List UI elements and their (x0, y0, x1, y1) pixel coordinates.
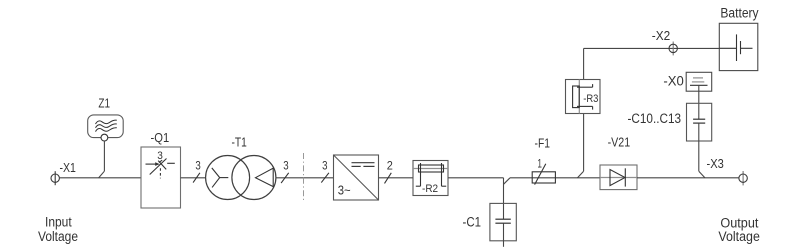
converter U1 AC/DC (334, 155, 379, 200)
wire X0 to C10 (698, 85, 700, 119)
capacitor C1 (490, 203, 516, 246)
svg-text:3: 3 (322, 161, 327, 173)
separator dash-dot line (303, 153, 305, 202)
wire converter to R2 (379, 177, 414, 179)
svg-text:3~: 3~ (338, 183, 351, 198)
svg-text:3: 3 (283, 161, 288, 173)
svg-text:-X1: -X1 (60, 160, 76, 175)
fuse F1 (532, 158, 555, 184)
svg-text:Input: Input (45, 214, 72, 229)
wire X1 to Q1 (59, 177, 141, 179)
phase slash 3 (281, 161, 289, 183)
node C1 junction (504, 178, 511, 185)
resistor R2 (413, 161, 448, 196)
svg-text:-C1: -C1 (463, 214, 482, 229)
svg-text:-R2: -R2 (422, 183, 438, 195)
resistor R3 (566, 80, 601, 114)
transformer T1 (206, 156, 276, 200)
svg-text:3: 3 (195, 161, 200, 173)
terminal output (739, 171, 747, 185)
svg-text:-X2: -X2 (652, 28, 670, 43)
filter Z1 (88, 115, 124, 141)
svg-text:-C10..C13: -C10..C13 (628, 111, 682, 126)
phase slash 3 (193, 161, 201, 183)
svg-text:-F1: -F1 (535, 135, 551, 150)
wire V21 to output (637, 177, 739, 179)
svg-text:-X0: -X0 (663, 74, 683, 89)
wire T1 to converter (276, 177, 334, 179)
wire Q1 to T1 (181, 177, 206, 179)
circuit breaker Q1 (141, 147, 181, 208)
wire R3 bottom to node (583, 114, 585, 172)
svg-text:1: 1 (537, 158, 542, 170)
svg-text:Battery: Battery (720, 5, 758, 20)
battery G1 (719, 23, 758, 70)
node X3 junction (699, 171, 705, 178)
svg-text:-V21: -V21 (608, 135, 631, 150)
wire C1 node to V21 (510, 177, 600, 179)
phase slash 2 (385, 161, 393, 184)
svg-text:-R3: -R3 (583, 93, 598, 105)
wire node to C1 (503, 178, 505, 219)
svg-text:Voltage: Voltage (38, 229, 78, 244)
svg-text:Voltage: Voltage (718, 229, 760, 244)
wire R2 to C1 node (448, 177, 504, 179)
phase slash 3 (321, 161, 329, 183)
diode V21 (600, 165, 637, 190)
terminal -X2 (669, 42, 677, 56)
wire corner to R3 top (583, 48, 585, 79)
node R3 junction (577, 171, 583, 178)
svg-text:-X3: -X3 (707, 156, 724, 171)
wire Z1 stem (103, 141, 105, 171)
terminal -X1 (51, 171, 59, 185)
svg-text:2: 2 (387, 161, 393, 173)
wire battery horizontal (584, 47, 720, 49)
earth terminal X0 (686, 72, 712, 91)
svg-text:Z1: Z1 (98, 96, 110, 111)
svg-text:-T1: -T1 (232, 135, 247, 150)
svg-text:3: 3 (157, 150, 163, 162)
node Z1 junction (99, 171, 105, 178)
svg-text:-Q1: -Q1 (151, 130, 170, 145)
capacitor bank C10..C13 (687, 103, 712, 171)
